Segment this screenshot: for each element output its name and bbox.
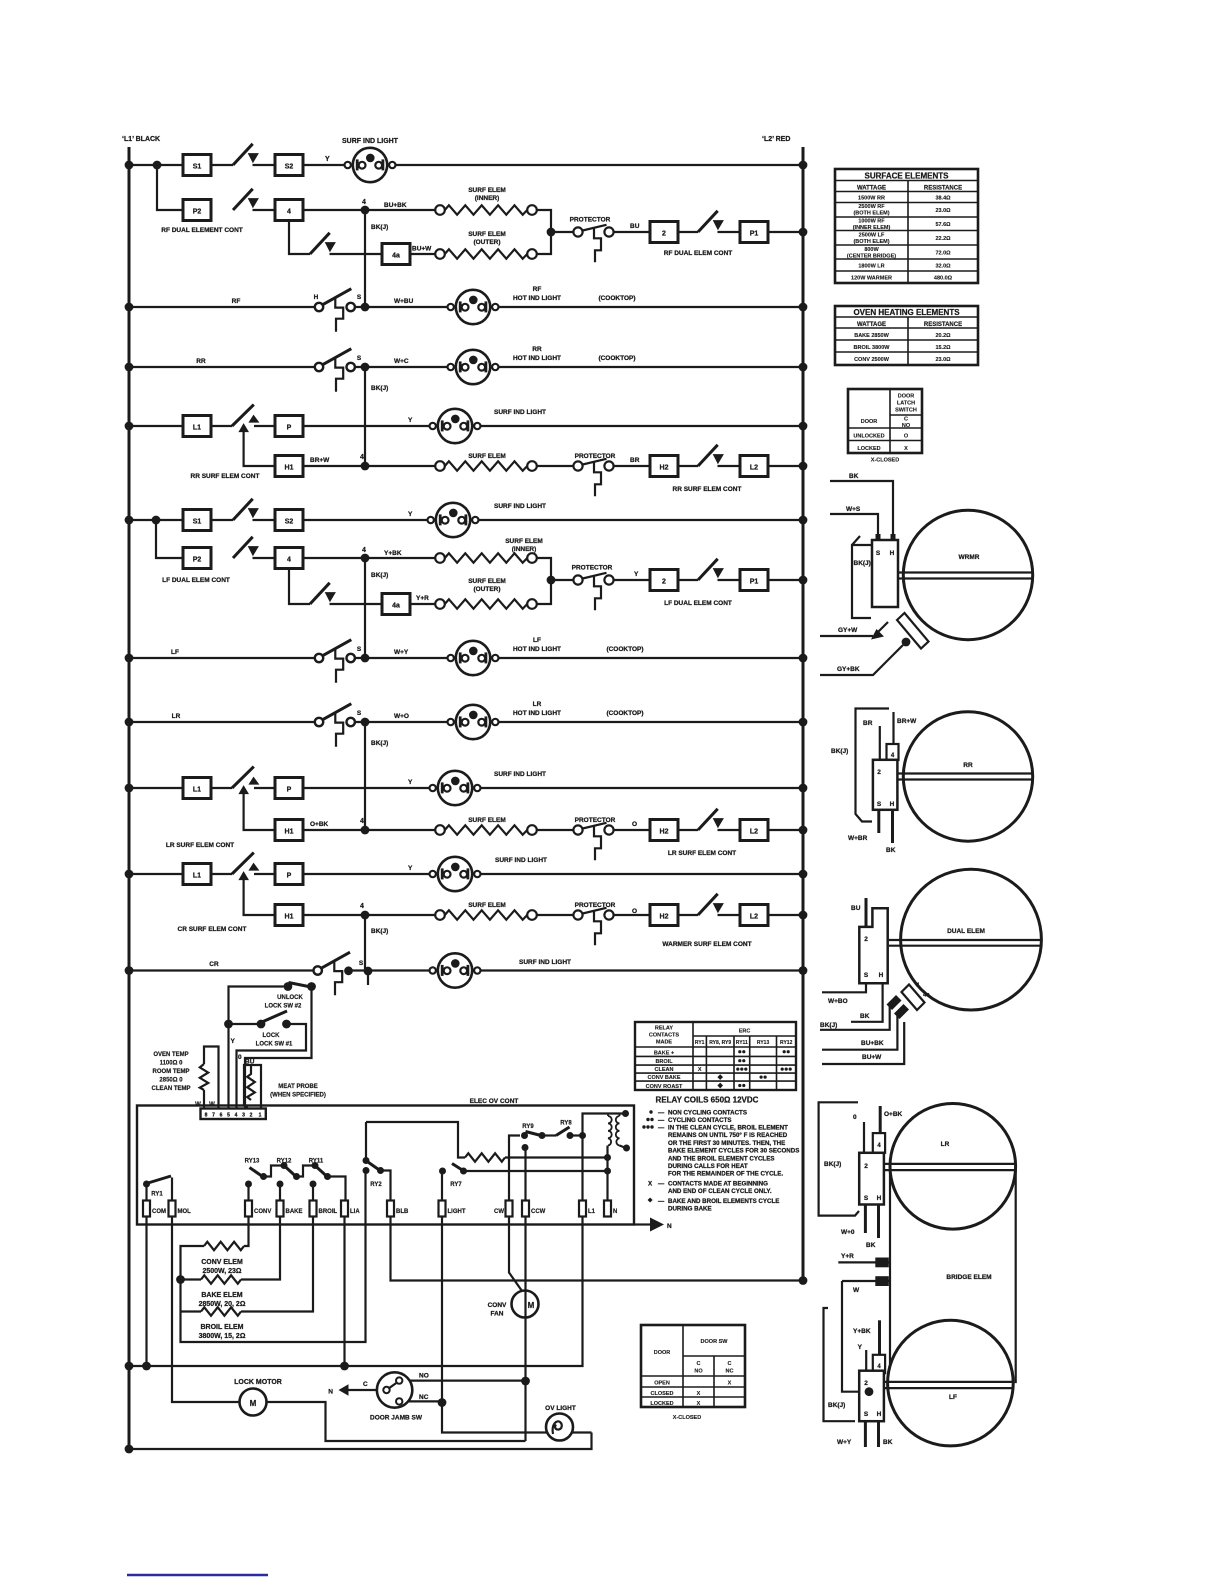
svg-text:X-CLOSED: X-CLOSED [871,458,899,464]
node row A left rail [125,161,134,170]
svg-text:P: P [287,873,292,880]
svg-text:L2: L2 [750,829,758,836]
lr terminal block [859,1153,884,1205]
svg-text:Y: Y [408,511,413,518]
svg-text:S: S [864,1411,869,1418]
svg-text:BAKE 2850W: BAKE 2850W [854,333,889,339]
wire node 4 vertical BK(J) [364,210,366,307]
connector strip P1 [201,1109,266,1120]
wire O internal lr [863,1122,865,1153]
node row L right rail [799,784,808,793]
svg-text:2500W, 23Ω: 2500W, 23Ω [202,1268,241,1275]
svg-text:Y+R: Y+R [841,1253,854,1260]
svg-text:120W WARMER: 120W WARMER [851,276,892,282]
switch 4-4a [310,233,336,254]
svg-text:S: S [357,646,362,653]
svg-text:WRMR: WRMR [959,554,980,561]
wire BK stub wrmr [830,481,893,540]
svg-text:W+C: W+C [394,358,409,365]
wire row E RR surf ind [129,425,803,427]
node row L left rail [125,784,134,793]
svg-text:RY12: RY12 [780,1040,793,1046]
svg-text:2: 2 [662,231,666,238]
hot ind light LR [448,705,499,739]
box S1 LF [183,510,211,531]
conv fan [512,1291,539,1318]
lr block 4 [873,1133,885,1153]
wire BU+W stub [822,1022,904,1064]
table door latch switch [848,389,922,464]
wire CR S stub [367,971,369,985]
svg-text:1500W RR: 1500W RR [858,196,885,202]
svg-text:M: M [528,1301,535,1310]
switch 2-P1 LF [698,559,724,580]
svg-text:38.4Ω: 38.4Ω [935,196,951,202]
resistor elec ov cont [465,1153,505,1161]
svg-text:BAKE: BAKE [286,1209,303,1215]
dual terminal block [859,908,887,983]
svg-text:RR SURF ELEM CONT: RR SURF ELEM CONT [673,486,742,493]
svg-text:20.2Ω: 20.2Ω [935,333,951,339]
svg-text:P2: P2 [193,557,202,564]
table surface elements [835,169,978,283]
svg-text:8: 8 [205,1113,208,1119]
svg-text:2: 2 [662,579,666,586]
svg-text:W+Y: W+Y [394,649,409,656]
svg-text:3800W, 15, 2Ω: 3800W, 15, 2Ω [199,1333,246,1340]
protector RR [573,459,613,497]
lf block 4 [873,1355,885,1373]
relay RY13 [245,1166,283,1201]
svg-text:32.0Ω: 32.0Ω [935,264,951,270]
svg-text:C: C [697,1361,701,1367]
svg-text:(INNER ELEM): (INNER ELEM) [853,225,891,231]
LR element assembly [819,1102,1016,1383]
svg-text:LR SURF ELEM CONT: LR SURF ELEM CONT [166,842,234,849]
svg-text:NC: NC [419,1394,429,1401]
hot ind light LF [448,641,499,675]
L1 BLACK left supply rail [128,147,131,1449]
box P1 LF [740,570,768,591]
box S1 [183,155,211,176]
svg-text:BK: BK [886,847,896,854]
svg-text:MOL: MOL [178,1209,192,1215]
svg-text:Y+BK: Y+BK [384,550,402,557]
svg-text:CONV BAKE: CONV BAKE [647,1075,680,1081]
wire line B BLB to right rail [391,1217,804,1281]
switch P2-4 [233,189,259,210]
svg-text:BK(J): BK(J) [820,1022,837,1029]
svg-text:CCW: CCW [531,1209,546,1215]
node LF left rail [125,654,134,663]
wire Y internal lf [865,1350,867,1371]
svg-text:BK: BK [866,1242,876,1249]
wire row B2 outer element [289,221,551,255]
lr H stub [877,1205,880,1239]
svg-text:CYCLING CONTACTS: CYCLING CONTACTS [668,1117,731,1124]
svg-text:0: 0 [853,1114,857,1121]
svg-text:CONV: CONV [488,1302,507,1309]
node RF S junction [361,303,370,312]
box H1 warmer [275,905,303,926]
box 4 [275,200,303,221]
svg-text:L1: L1 [193,787,201,794]
svg-text:L1: L1 [193,425,201,432]
svg-text:4a: 4a [923,993,930,999]
terminal CW [506,1201,513,1217]
svg-text:PROTECTOR: PROTECTOR [575,902,616,909]
svg-text:OVEN HEATING ELEMENTS: OVEN HEATING ELEMENTS [853,308,960,317]
wire CCW riser down [524,1217,526,1442]
wire W internal lf [842,1308,869,1392]
svg-text:H2: H2 [660,829,669,836]
svg-text:BR: BR [630,457,640,464]
svg-text:72.0Ω: 72.0Ω [935,251,951,257]
svg-text:BR+W: BR+W [897,718,917,725]
table relay contacts [635,1022,796,1090]
svg-text:23.0Ω: 23.0Ω [935,208,951,214]
resistor surf elem outer LF [435,599,537,609]
svg-text:LF: LF [949,1394,957,1401]
svg-text:(BOTH ELEM): (BOTH ELEM) [853,239,889,245]
resistor surf elem outer RF [435,249,537,259]
svg-text:SURF IND LIGHT: SURF IND LIGHT [494,409,546,416]
svg-text:C: C [728,1361,732,1367]
resistor broil elem [201,1307,241,1315]
wrmr element circle [903,510,1032,639]
svg-text:RELAY: RELAY [655,1026,673,1032]
svg-text:PROTECTOR: PROTECTOR [570,217,611,224]
wire CCW riser top [524,1148,526,1201]
ov light [546,1414,573,1441]
node row A branch [153,161,162,170]
svg-text:BU+BK: BU+BK [861,1040,884,1047]
svg-text:CONV 2500W: CONV 2500W [854,357,890,363]
svg-text:6: 6 [220,1113,223,1119]
svg-text:Y+R: Y+R [416,595,429,602]
svg-text:—: — [658,1117,665,1124]
svg-text:BK(J): BK(J) [371,928,388,935]
svg-text:GY+BK: GY+BK [837,666,860,673]
wrmr plug outline [852,536,871,618]
svg-text:FOR THE REMAINDER OF THE CYCLE: FOR THE REMAINDER OF THE CYCLE. [668,1171,783,1178]
wire row M LR surf elem [303,829,803,831]
wire BK stub dual [851,983,883,1022]
svg-text:RF: RF [533,286,542,293]
relay RY12 [277,1162,315,1201]
resistor surf elem inner RF [435,205,537,215]
svg-text:H1: H1 [285,914,294,921]
svg-text:LR: LR [172,713,181,720]
RR element assembly [831,709,1033,855]
svg-text:(INNER): (INNER) [512,546,537,553]
svg-text:DOOR: DOOR [654,1350,671,1356]
svg-text:1800W LR: 1800W LR [858,264,884,270]
node row G left rail [125,516,134,525]
box 2 LF [650,570,678,591]
svg-text:H2: H2 [660,914,669,921]
svg-text:RY7: RY7 [450,1182,462,1188]
svg-text:BR+W: BR+W [310,457,330,464]
lf H stub [877,1421,880,1447]
wire N arrow out [634,1223,650,1225]
box H2 warmer [650,905,678,926]
wire Y+BK stub lf [878,1320,881,1355]
wire BK(J) vertical RR to H1 [364,367,366,466]
switch 2-P1 RF [698,211,724,232]
svg-text:LF DUAL ELEM CONT: LF DUAL ELEM CONT [664,600,732,607]
switch S1-S2 LF [233,499,259,520]
svg-text:NO: NO [694,1369,703,1375]
svg-text:S2: S2 [285,519,294,526]
svg-text:H: H [890,550,895,557]
wire row P CR cooktop [129,969,803,971]
node row G right rail [799,516,808,525]
svg-text:H1: H1 [285,465,294,472]
svg-text:O+BK: O+BK [884,1111,903,1118]
svg-text:P2: P2 [193,209,202,216]
terminal MOL [169,1201,176,1217]
svg-text:W: W [853,1287,860,1294]
lr plug outline [819,1102,859,1215]
rr element leads [897,774,1033,780]
node NC junction [438,1398,447,1407]
svg-text:H: H [314,294,319,301]
svg-text:BU+BK: BU+BK [384,202,407,209]
svg-text:SURF ELEM: SURF ELEM [468,453,506,460]
svg-text:BU+W: BU+W [412,246,432,253]
svg-text:O: O [632,821,637,828]
wire broil elem [181,1217,314,1312]
svg-text:LF: LF [171,649,179,656]
svg-text:RY8: RY8 [560,1121,572,1127]
surf ind light LR [430,771,481,805]
svg-text:HOT IND LIGHT: HOT IND LIGHT [513,355,561,362]
svg-text:OV LIGHT: OV LIGHT [545,1405,576,1412]
svg-text:P: P [287,425,292,432]
svg-text:RY8, RY9: RY8, RY9 [709,1040,731,1046]
svg-text:1100Ω 0: 1100Ω 0 [160,1061,183,1067]
svg-text:NON CYCLING CONTACTS: NON CYCLING CONTACTS [668,1110,747,1117]
svg-text:IN THE CLEAN CYCLE, BROIL ELEM: IN THE CLEAN CYCLE, BROIL ELEMENT [668,1125,788,1132]
svg-text:RY13: RY13 [757,1040,770,1046]
svg-text:LIA: LIA [350,1209,360,1215]
svg-text:H2: H2 [660,465,669,472]
svg-text:2850Ω 0: 2850Ω 0 [159,1078,183,1084]
svg-text:RY1: RY1 [151,1192,163,1198]
node 4 row F [361,462,370,471]
relay RY2 [363,1122,391,1201]
svg-text:4: 4 [360,903,364,910]
blue artifact line bottom [127,1574,268,1577]
lf plug outline [824,1281,856,1421]
svg-text:(BOTH ELEM): (BOTH ELEM) [853,211,889,217]
svg-text:X-CLOSED: X-CLOSED [673,1415,701,1421]
wire COM riser down [145,1217,147,1367]
protector LR [573,823,613,861]
svg-text:(INNER): (INNER) [475,195,500,202]
node LR S junction [361,718,370,727]
lf terminal block [859,1371,884,1422]
svg-text:LF: LF [533,637,541,644]
svg-text:W+BO: W+BO [828,998,848,1005]
svg-text:BK(J): BK(J) [371,572,388,579]
terminal BLB [387,1201,394,1217]
svg-text:Y: Y [408,865,413,872]
box 4 LF [275,548,303,569]
svg-text:CR SURF ELEM CONT: CR SURF ELEM CONT [178,926,247,933]
svg-text:W+BU: W+BU [394,298,414,305]
lr element circle [890,1104,1016,1230]
lr S stub [864,1205,867,1234]
svg-text:‘L1’ BLACK: ‘L1’ BLACK [122,136,160,143]
resistor surf elem inner LF [435,553,537,563]
wire row I LF outer [289,569,551,605]
dual ramp connector 4 4a [902,985,925,1011]
svg-text:X: X [648,1180,653,1187]
protector warmer [573,908,613,946]
svg-text:1000W RF: 1000W RF [858,219,885,225]
svg-text:DOOR SW: DOOR SW [701,1339,729,1345]
svg-text:800W: 800W [864,247,879,253]
svg-text:H1: H1 [285,829,294,836]
svg-text:LR: LR [533,701,542,708]
rr plug outline [856,709,890,822]
wire branch to P2 LF [156,520,183,558]
svg-text:COM: COM [152,1209,166,1215]
svg-text:BK: BK [860,1013,870,1020]
svg-text:CLEAN: CLEAN [655,1067,674,1073]
node lock sw2 left contact [284,982,293,991]
svg-text:SURF ELEM: SURF ELEM [468,817,506,824]
node protector junction row B [547,228,556,237]
switch RR S [315,349,355,392]
wire GY+BK stub [820,645,903,675]
svg-text:4: 4 [360,454,364,461]
wire lock sw1 loop [229,1024,307,1111]
svg-text:CONTACTS MADE AT BEGINNING: CONTACTS MADE AT BEGINNING [668,1180,768,1187]
node row J right rail [799,654,808,663]
node lock sw2 right contact [307,982,316,991]
node row G branch [152,516,161,525]
cell conv roast [717,1083,723,1089]
svg-text:DOOR: DOOR [861,419,878,425]
hot ind light RF [448,290,499,324]
wire BK(J) vertical row O to CR [364,915,366,971]
svg-text:L2: L2 [750,914,758,921]
svg-text:(COOKTOP): (COOKTOP) [606,710,643,717]
node row K right rail [799,718,808,727]
wire link to H1 CR [244,880,275,915]
resistor conv elem [204,1242,244,1250]
wire branch L1 to P2 row B [157,165,183,210]
surf ind light CR cooktop [430,953,481,987]
svg-text:RY12: RY12 [277,1159,292,1165]
wire link to H1 LR [244,794,275,830]
svg-text:CONTACTS: CONTACTS [649,1033,679,1039]
node NO junction [521,1377,530,1386]
dual element leads [889,940,1041,946]
svg-text:4: 4 [362,547,366,554]
svg-text:PROTECTOR: PROTECTOR [572,565,613,572]
node LR left rail [125,718,134,727]
svg-text:OR THE FIRST 30 MINUTES. THEN,: OR THE FIRST 30 MINUTES. THEN, THE [668,1140,785,1147]
lf S stub [864,1421,867,1447]
svg-text:2: 2 [250,1113,253,1119]
svg-text:H: H [877,1195,882,1202]
svg-text:CR: CR [209,961,219,968]
svg-text:L1: L1 [588,1209,596,1215]
svg-text:(OUTER): (OUTER) [473,586,500,593]
svg-text:REMAINS ON UNTIL 750° F IS REA: REMAINS ON UNTIL 750° F IS REACHED [668,1132,788,1139]
svg-text:AND END OF CLEAN CYCLE ONLY.: AND END OF CLEAN CYCLE ONLY. [668,1188,772,1195]
svg-text:RESISTANCE: RESISTANCE [924,322,962,328]
svg-text:SURF IND LIGHT: SURF IND LIGHT [342,138,399,145]
svg-text:S: S [359,960,364,967]
svg-text:RY9: RY9 [522,1124,534,1130]
svg-text:P: P [287,787,292,794]
svg-text:H: H [877,1411,882,1418]
node row H right rail [799,576,808,585]
svg-text:Y: Y [408,417,413,424]
svg-text:H: H [890,801,895,808]
wire conv elem loop [181,1171,366,1343]
svg-text:ERC: ERC [739,1029,751,1035]
node row B right rail [799,228,808,237]
node row E left rail [125,422,134,431]
relay RY11 [310,1162,346,1201]
svg-text:RR: RR [532,346,542,353]
svg-text:2: 2 [877,769,881,776]
svg-text:SURF ELEM: SURF ELEM [468,231,506,238]
resistor surf elem warmer [435,910,537,920]
box H2 RR [650,456,678,477]
svg-text:RR SURF ELEM CONT: RR SURF ELEM CONT [191,473,260,480]
box 4a LF [382,594,410,615]
svg-text:SURF ELEM: SURF ELEM [468,187,506,194]
node row P right rail [799,966,808,975]
svg-text:BU: BU [630,223,640,230]
wire row C RF cooktop [129,306,803,308]
svg-text:PROTECTOR: PROTECTOR [575,817,616,824]
svg-text:4: 4 [360,818,364,825]
wire L1 riser [583,1114,626,1201]
svg-text:BK(J): BK(J) [371,740,388,747]
meat probe sensor [244,1065,261,1111]
svg-text:DOOR JAMB SW: DOOR JAMB SW [370,1415,423,1422]
svg-text:SURF ELEM: SURF ELEM [468,578,506,585]
box P1 RF [740,222,768,243]
wire MOL riser to lock motor [172,1217,240,1403]
svg-text:NC: NC [726,1369,734,1375]
svg-text:X: X [698,1067,702,1073]
switch H2-L2 warmer [698,894,724,915]
warmer element assembly [820,473,1033,675]
svg-text:BROIL: BROIL [319,1209,338,1215]
svg-text:BK(J): BK(J) [824,1161,841,1168]
wire row F RR surf elem [303,465,803,467]
node RR left rail [125,363,134,372]
wire RY7 line [464,1170,609,1172]
svg-text:RESISTANCE: RESISTANCE [924,186,962,192]
svg-text:—: — [658,1180,665,1187]
svg-text:CONV: CONV [254,1209,271,1215]
svg-text:OVEN TEMP: OVEN TEMP [153,1052,188,1058]
terminal CCW [522,1201,529,1217]
svg-text:HOT IND LIGHT: HOT IND LIGHT [513,295,561,302]
box H1 LR [275,820,303,841]
svg-text:BAKE +: BAKE + [654,1051,674,1057]
